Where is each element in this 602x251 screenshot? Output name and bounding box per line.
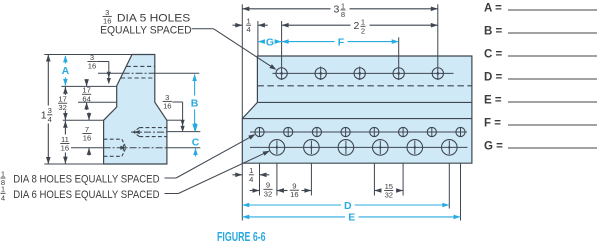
svg-text:16: 16	[290, 190, 298, 199]
svg-text:B: B	[191, 98, 199, 110]
answer blank C	[484, 49, 597, 61]
note 1/4 dia 6 holes	[1, 185, 160, 203]
dim 1/4 bottom	[233, 166, 270, 184]
svg-text:4: 4	[48, 115, 52, 124]
svg-text:E: E	[348, 212, 355, 224]
dim 7/16	[82, 113, 91, 156]
ext hole S8	[460, 163, 462, 220]
extension line top edge	[44, 54, 132, 56]
hole L6 1/4 dia	[442, 140, 458, 156]
svg-text:C =: C =	[484, 49, 503, 61]
svg-text:32: 32	[58, 103, 66, 112]
ext step edge	[257, 21, 259, 56]
hole T1 3/16 dia	[276, 68, 287, 79]
dim 1-3/4	[41, 55, 53, 165]
svg-text:16: 16	[83, 134, 91, 143]
answer blank A	[484, 3, 597, 15]
svg-text:E =: E =	[484, 95, 502, 107]
large holes centreline	[250, 146, 468, 148]
dim E	[242, 212, 460, 224]
front view dashed edge	[257, 85, 472, 87]
front view lower edge	[242, 118, 472, 120]
dim 3/16 upper	[87, 53, 111, 84]
front view body	[242, 56, 472, 163]
hole T5 3/16 dia	[432, 68, 443, 79]
svg-text:16: 16	[61, 144, 69, 153]
extension line y86	[61, 85, 116, 87]
extension line y102	[78, 101, 117, 103]
hole L5 1/4 dia	[407, 140, 423, 156]
ext hole S6	[402, 163, 404, 195]
svg-text:32: 32	[264, 189, 272, 198]
extension line bottom	[44, 163, 103, 165]
top hole centreline	[98, 72, 199, 74]
hole L4 1/4 dia	[373, 140, 389, 156]
extension stub y120 right	[167, 119, 181, 121]
hole S3 1/8 dia	[312, 127, 321, 137]
svg-text:A =: A =	[484, 3, 502, 15]
hole L1 1/4 dia	[269, 140, 285, 156]
ext hole T4	[398, 37, 400, 80]
dim 9/16	[277, 182, 312, 200]
hidden hole line upper	[127, 65, 155, 67]
svg-text:4: 4	[249, 175, 253, 184]
caption FIGURE 6-6	[217, 230, 266, 244]
ext hole L1	[276, 163, 278, 195]
hidden 1/4 hole	[104, 139, 127, 156]
dim B	[191, 74, 199, 131]
svg-text:D: D	[344, 200, 352, 212]
svg-text:F: F	[338, 36, 345, 48]
hole S2 1/8 dia	[284, 127, 293, 137]
svg-text:16: 16	[88, 62, 96, 71]
1/4 hole centreline	[71, 147, 200, 149]
1/8 hole centreline	[131, 131, 200, 134]
answer blank F	[484, 118, 597, 130]
svg-text:EQUALLY SPACED: EQUALLY SPACED	[100, 25, 192, 37]
note 1/8 dia 8 holes	[1, 169, 160, 187]
top holes centreline	[273, 72, 454, 74]
dim 11/16	[60, 121, 69, 164]
leader small holes	[165, 134, 256, 178]
side view body	[104, 55, 167, 165]
hole S4 1/8 dia	[341, 127, 350, 137]
svg-text:B =: B =	[484, 26, 503, 38]
hole S8 1/8 dia	[456, 127, 465, 137]
leader top holes	[192, 29, 277, 70]
ext hole T5	[437, 4, 439, 80]
dim 3-1/8	[242, 1, 437, 19]
hidden hole line lower	[121, 77, 155, 79]
dim C	[192, 123, 200, 157]
ext left edge	[241, 4, 243, 220]
dim 9/32	[250, 181, 287, 199]
ext hole L6	[448, 163, 450, 208]
dim 2-1/2	[282, 18, 438, 36]
svg-text:FIGURE 6-6: FIGURE 6-6	[217, 230, 266, 244]
leader large holes	[165, 151, 270, 194]
svg-text:DIA 8 HOLES EQUALLY SPACED: DIA 8 HOLES EQUALLY SPACED	[13, 173, 159, 185]
svg-text:F =: F =	[484, 118, 501, 130]
svg-text:4: 4	[1, 193, 5, 202]
hole S6 1/8 dia	[399, 127, 408, 137]
answer blank E	[484, 95, 597, 107]
svg-text:2: 2	[361, 26, 365, 35]
dim 1/4 top	[233, 17, 268, 35]
hole T2 3/16 dia	[315, 67, 326, 81]
svg-text:DIA 5 HOLES: DIA 5 HOLES	[117, 13, 190, 25]
dim D	[242, 200, 449, 212]
ext hole S5	[373, 163, 375, 195]
answer blank G	[484, 141, 597, 153]
dim 3/16 right	[163, 93, 185, 132]
hole T4 3/16 dia	[393, 68, 404, 79]
hole L2 1/4 dia	[304, 140, 320, 156]
svg-text:C: C	[192, 137, 200, 149]
answer blank D	[484, 72, 597, 84]
svg-text:DIA 6 HOLES EQUALLY SPACED: DIA 6 HOLES EQUALLY SPACED	[13, 189, 159, 201]
svg-text:64: 64	[82, 94, 90, 103]
hole S5 1/8 dia	[370, 127, 379, 137]
svg-text:G =: G =	[484, 141, 503, 153]
hole T3 3/16 dia	[354, 67, 365, 81]
small holes centreline	[250, 131, 467, 133]
svg-text:2: 2	[354, 20, 360, 32]
dim 17/32	[58, 87, 68, 120]
svg-text:A: A	[62, 65, 70, 77]
svg-text:3: 3	[334, 4, 340, 16]
dim 15/32	[374, 182, 403, 200]
svg-text:32: 32	[385, 191, 393, 200]
answer blank B	[484, 26, 597, 38]
dim 17/64	[82, 79, 91, 110]
svg-text:1: 1	[41, 109, 47, 121]
extension line y120	[63, 119, 104, 121]
svg-text:8: 8	[341, 10, 345, 19]
dim G	[258, 36, 282, 48]
svg-text:4: 4	[246, 25, 250, 34]
ext hole L2	[310, 163, 312, 195]
svg-text:D =: D =	[484, 72, 503, 84]
hole S7 1/8 dia	[427, 127, 436, 137]
svg-text:16: 16	[163, 101, 171, 110]
svg-text:G: G	[266, 36, 274, 48]
hole S1 1/8 dia	[255, 127, 264, 137]
front view step edge	[257, 101, 472, 103]
dim A	[62, 55, 70, 86]
ext hole S1	[259, 163, 261, 195]
dim F	[282, 36, 399, 48]
hidden 1/8 hole	[133, 128, 167, 137]
ext hole T1	[281, 21, 283, 80]
note 3/16 dia 5 holes	[100, 8, 192, 37]
hole L3 1/4 dia	[338, 140, 354, 156]
